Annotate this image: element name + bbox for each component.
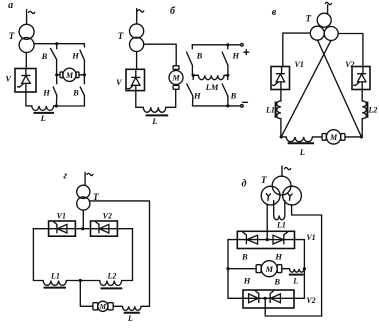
svg-text:Н: Н	[42, 88, 50, 98]
svg-text:L2: L2	[368, 106, 378, 115]
wire primary (a)	[26, 10, 28, 25]
wire diagonal left-circle to right corner (v)	[318, 40, 362, 137]
motor M (b)	[169, 66, 183, 90]
wire thyristor row (g)	[33, 228, 132, 230]
inductor L2 (v)	[362, 90, 377, 137]
wire bridge bottom (b)	[193, 105, 241, 107]
svg-text:L1: L1	[265, 106, 275, 115]
svg-text:LM: LM	[205, 82, 219, 92]
wire bottom (d)	[265, 298, 321, 316]
svg-text:Н: Н	[274, 252, 282, 262]
AC source ~ (b)	[138, 10, 144, 12]
wire primary (v)	[327, 5, 329, 14]
transformer T (b)	[118, 24, 144, 52]
label а	[8, 0, 13, 11]
wire secondary top (a)	[34, 43, 84, 45]
motor M (d)	[228, 261, 282, 277]
wire left rail (d)	[227, 240, 229, 299]
wire bridge top (b)	[192, 44, 240, 46]
wire right side (g)	[122, 229, 133, 281]
switch Н (a top-right)	[71, 44, 84, 75]
switch Н (b bottom-left)	[187, 75, 201, 106]
svg-text:L: L	[151, 116, 157, 126]
motor M (g)	[93, 301, 113, 311]
svg-text:Т: Т	[305, 13, 311, 23]
inductor L (b)	[136, 107, 168, 126]
node (g center)	[79, 279, 82, 282]
node (g between V1 V2)	[81, 227, 84, 230]
svg-text:д: д	[242, 178, 247, 189]
node (a top)	[55, 42, 58, 45]
inductor L1 (v)	[265, 90, 281, 137]
wire primary (g)	[84, 172, 86, 185]
label г	[63, 171, 67, 182]
svg-text:Т: Т	[9, 31, 15, 41]
terminal + (b)	[241, 44, 249, 55]
inductor L (d)	[282, 269, 305, 286]
svg-text:Н: Н	[193, 91, 201, 101]
label В (d mid-right)	[273, 276, 280, 286]
node (a bottom junction)	[55, 104, 58, 107]
wire primary (d)	[281, 166, 283, 176]
AC source ~ (v)	[325, 2, 331, 4]
svg-text:В: В	[241, 252, 248, 262]
svg-text:V2: V2	[345, 60, 354, 69]
svg-text:а: а	[8, 0, 13, 11]
label Н (d mid-left)	[243, 276, 251, 286]
thyristor V (a)	[5, 53, 36, 93]
node (b mid-right)	[226, 74, 229, 77]
wire transformer to V (b)	[136, 52, 138, 70]
svg-text:L: L	[292, 276, 298, 285]
label б	[170, 6, 176, 17]
svg-text:V1: V1	[306, 233, 315, 242]
node (d V2 center)	[264, 297, 267, 300]
inductor L (a)	[32, 106, 57, 123]
label в	[272, 7, 277, 18]
svg-text:V1: V1	[57, 212, 66, 221]
node (v bottom-left)	[280, 135, 283, 138]
svg-text:Н: Н	[231, 50, 239, 60]
svg-text:г: г	[63, 171, 67, 182]
switch В (b top-left)	[187, 45, 203, 76]
thyristor V1 (g)	[49, 212, 76, 237]
thyristor V2 (v)	[345, 60, 370, 89]
thyristor block V1 (d)	[228, 231, 316, 261]
svg-text:L1: L1	[50, 272, 60, 281]
wire secondary right (b)	[144, 44, 177, 65]
wire (a V to L)	[26, 92, 32, 106]
switch В (b bottom-right)	[222, 75, 236, 106]
inductor L2 (g)	[100, 272, 123, 289]
thyristor V1 (v)	[271, 60, 304, 89]
svg-text:L2: L2	[107, 272, 117, 281]
wire right lead (d)	[292, 205, 322, 316]
node (v bottom-right)	[360, 135, 363, 138]
node (b bridge bottom)	[226, 104, 229, 107]
AC source ~ (g)	[87, 173, 93, 175]
inductor L (v)	[281, 137, 322, 157]
wire center drop (g)	[80, 281, 93, 307]
thyristor V (b)	[116, 69, 145, 107]
thyristor V2 (g)	[91, 212, 118, 237]
node (d rail mid)	[226, 267, 229, 270]
wire secondary left (v)	[283, 33, 311, 66]
transformer T (d)	[261, 175, 301, 205]
AC source ~ (a)	[29, 11, 35, 13]
svg-text:Н: Н	[243, 276, 251, 286]
terminal - (b)	[241, 102, 248, 107]
svg-text:в: в	[272, 7, 277, 18]
wire secondary down (g)	[82, 210, 84, 229]
svg-text:М: М	[265, 264, 274, 274]
motor M (a)	[57, 68, 85, 81]
svg-text:М: М	[99, 303, 107, 311]
node (d V1 center)	[266, 238, 269, 241]
switch Н (b top-right)	[222, 45, 239, 76]
inductor LM (b)	[193, 75, 228, 92]
motor M (v)	[322, 130, 361, 144]
inductor L1 (d)	[274, 201, 286, 230]
node (b bridge top)	[226, 43, 229, 46]
transformer T (v)	[305, 13, 338, 40]
wire middle row (g)	[66, 280, 99, 282]
wire motor to bottom (b)	[166, 89, 176, 107]
wire right drop (d)	[303, 240, 305, 299]
svg-text:В: В	[72, 88, 79, 98]
label д	[242, 178, 247, 189]
svg-text:V1: V1	[295, 60, 304, 69]
wire diagonal right-circle to left corner (v)	[281, 40, 331, 136]
node (b mid-left)	[192, 74, 195, 77]
svg-text:L: L	[299, 147, 305, 157]
switch В (a top-left)	[41, 44, 57, 75]
svg-text:В: В	[196, 50, 203, 60]
svg-text:М: М	[172, 74, 181, 83]
svg-text:V2: V2	[306, 296, 315, 305]
svg-text:L: L	[127, 314, 133, 323]
svg-text:М: М	[65, 71, 74, 80]
wire secondary right (g)	[89, 201, 149, 306]
wire primary (b)	[136, 9, 138, 24]
svg-text:Т: Т	[261, 175, 267, 185]
svg-text:В: В	[41, 51, 48, 61]
switch В (a bottom-right)	[72, 75, 84, 106]
inductor L1 (g)	[43, 272, 66, 288]
svg-text:L1: L1	[276, 221, 286, 230]
wire secondary right (v)	[338, 34, 363, 67]
wire left lead (d)	[266, 204, 268, 239]
wire left side (g)	[33, 229, 43, 281]
svg-text:Н: Н	[71, 51, 79, 61]
svg-text:В: В	[273, 276, 280, 286]
svg-text:Т: Т	[118, 31, 124, 41]
wire bottom (a bridge)	[56, 105, 84, 107]
transformer T (g)	[77, 185, 99, 210]
svg-text:V2: V2	[103, 212, 112, 221]
inductor L (g)	[113, 306, 149, 323]
AC source ~ (d)	[285, 167, 291, 169]
svg-text:М: М	[329, 133, 338, 142]
svg-text:L: L	[40, 113, 46, 123]
node (a motor right)	[83, 73, 86, 76]
switch Н (a bottom-left)	[42, 75, 57, 106]
transformer T (a)	[9, 24, 34, 52]
node (a motor left)	[55, 73, 58, 76]
thyristor block V2 (d)	[228, 290, 316, 308]
node (d L right)	[303, 267, 306, 270]
svg-text:В: В	[230, 91, 237, 101]
